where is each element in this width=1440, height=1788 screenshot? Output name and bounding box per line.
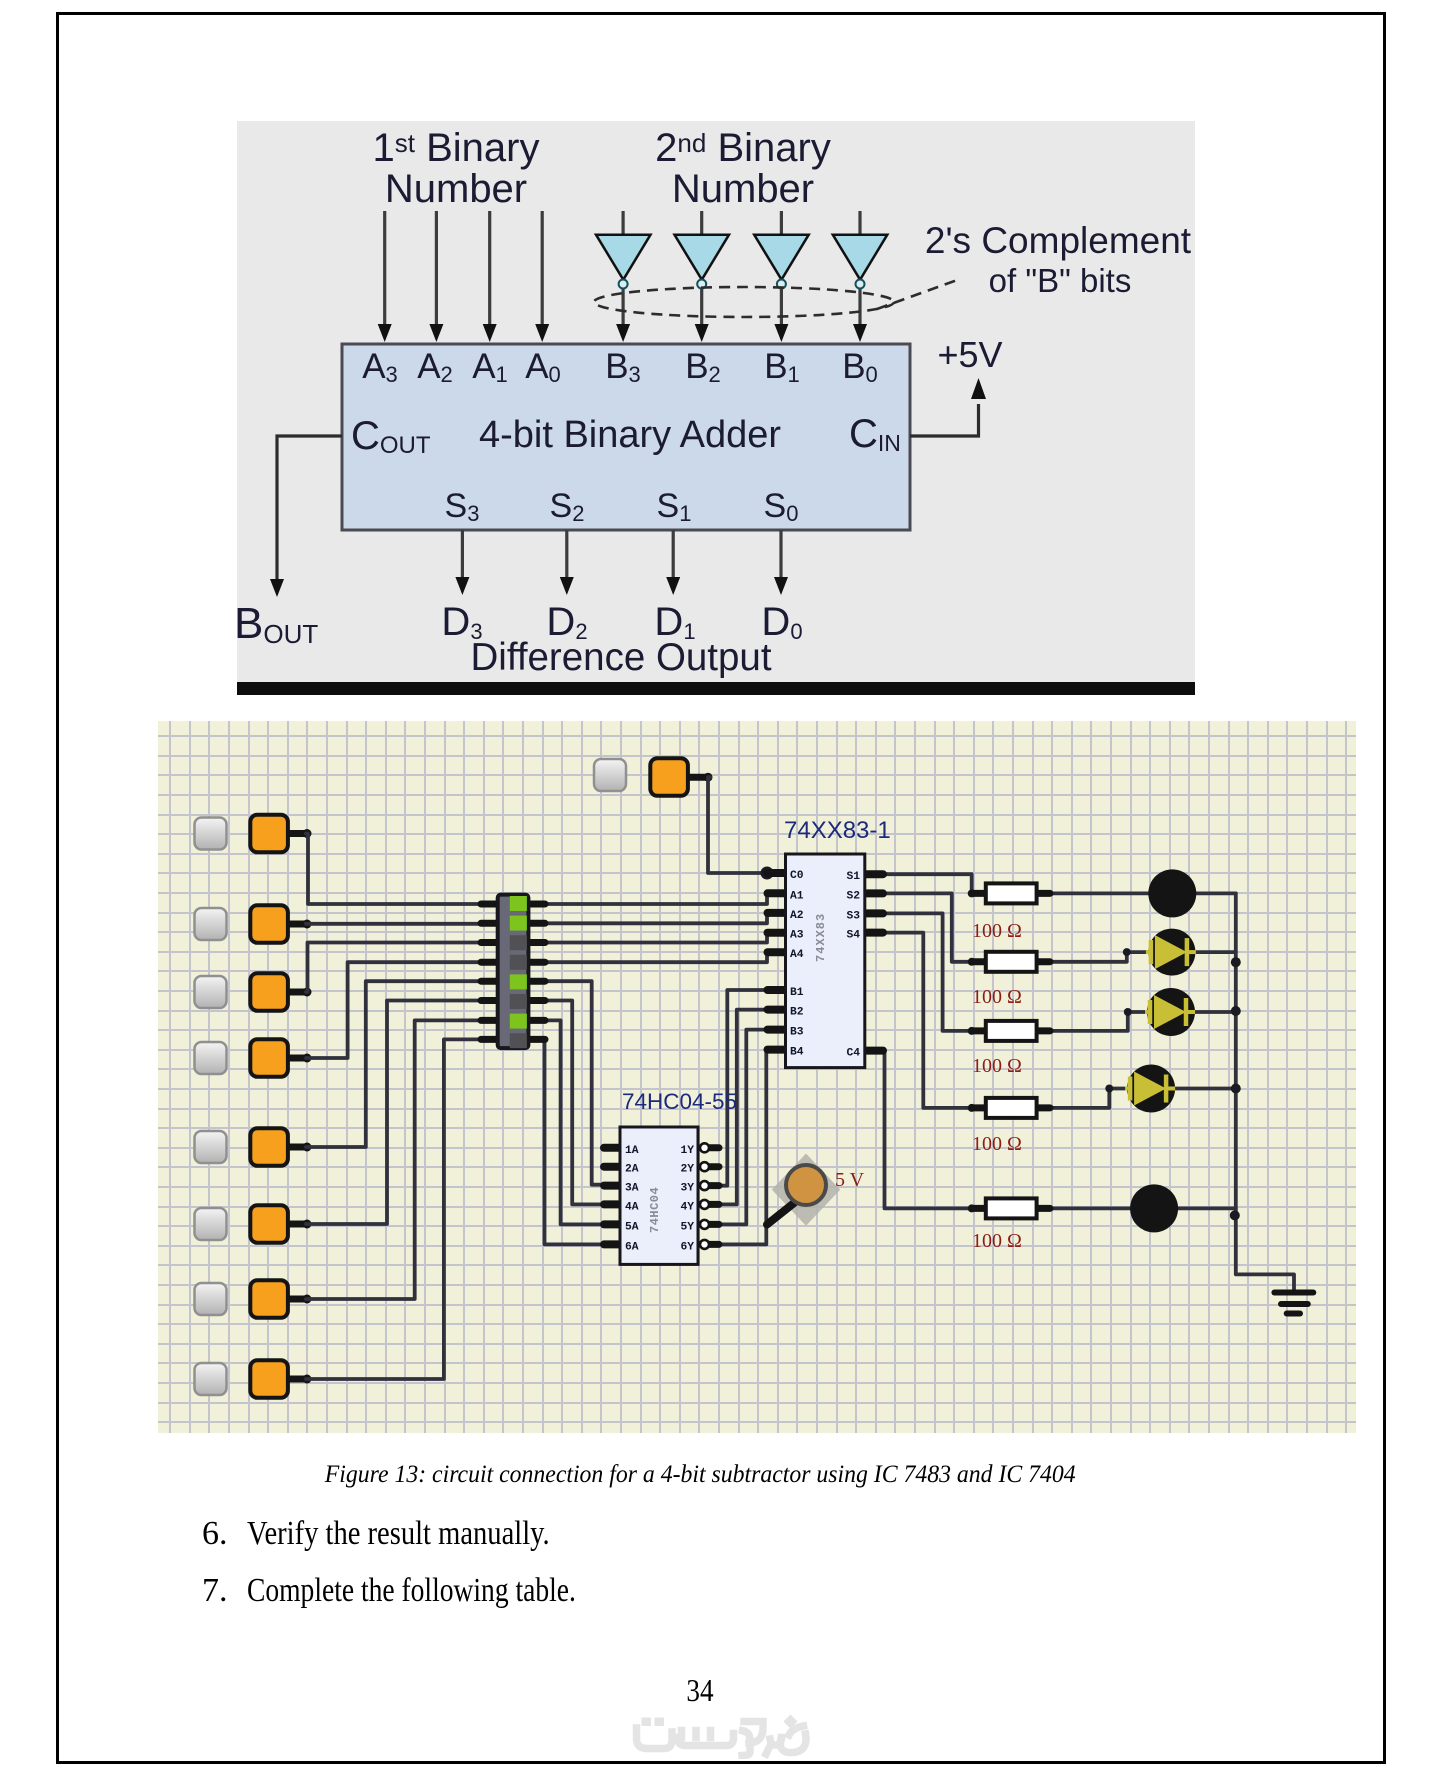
svg-text:2's Complement: 2's Complement xyxy=(925,220,1192,261)
corner blobs at wire bends near components xyxy=(968,889,1132,1212)
pin A1 xyxy=(768,889,786,897)
inverter column for B bits xyxy=(623,211,860,328)
node bus-LED4 xyxy=(1231,1084,1241,1094)
wire bar pin 6 to 4A xyxy=(543,1001,606,1205)
pin A4 xyxy=(768,948,786,956)
svg-text:100 Ω: 100 Ω xyxy=(972,920,1022,942)
wire 3Y to B1 xyxy=(718,990,766,1186)
dashed leader to label xyxy=(877,279,960,309)
input arrows A3..A0 xyxy=(385,211,543,328)
svg-text:5Y: 5Y xyxy=(680,1221,694,1233)
bar body xyxy=(498,895,529,1049)
pin A2 xyxy=(768,909,786,917)
wire 5Y to B3 xyxy=(718,1030,766,1225)
resistor R2 xyxy=(986,952,1037,972)
bar pin L8 xyxy=(481,1036,497,1043)
svg-text:100 Ω: 100 Ω xyxy=(972,986,1022,1008)
pin 4Y xyxy=(709,1201,719,1208)
svg-text:6Y: 6Y xyxy=(680,1241,694,1253)
wire top switch S9 to C0 xyxy=(708,777,766,873)
pin B1 xyxy=(768,986,786,994)
bubble 3Y xyxy=(700,1181,709,1190)
segment 1 (lit) xyxy=(510,896,527,911)
wire switch S6 to bar pin 6 xyxy=(306,1001,481,1225)
bar pin L4 xyxy=(481,959,497,966)
wire arrow D1 xyxy=(672,530,675,582)
bubble 2Y xyxy=(700,1162,709,1171)
svg-text:2Y: 2Y xyxy=(680,1164,694,1176)
svg-text:5 V: 5 V xyxy=(835,1169,865,1191)
switch S5 grey button xyxy=(195,1131,227,1163)
resistor R5 xyxy=(986,1198,1037,1218)
figure bottom black bar xyxy=(237,682,1195,695)
schematic background xyxy=(158,721,1356,1433)
bar pin L7 xyxy=(481,1017,497,1024)
item 6 xyxy=(202,1515,228,1553)
wire switch S4 to bar pin 4 xyxy=(306,962,481,1058)
svg-text:4Y: 4Y xyxy=(680,1201,694,1213)
segment 5 (lit) xyxy=(510,974,527,989)
svg-text:5A: 5A xyxy=(625,1221,639,1233)
svg-text:B4: B4 xyxy=(790,1047,804,1059)
wire arrow A1 xyxy=(488,211,491,328)
svg-text:of "B" bits: of "B" bits xyxy=(989,262,1132,299)
segment 7 (lit) xyxy=(510,1014,527,1029)
LED4 (lit) xyxy=(1125,1065,1175,1113)
svg-text:74HC04: 74HC04 xyxy=(648,1187,662,1233)
wire arrow A0 xyxy=(541,211,544,328)
wire R5 to LED5 xyxy=(1051,1207,1236,1211)
pin 3Y xyxy=(709,1182,719,1189)
segment 8 (off) xyxy=(510,1033,527,1048)
bar pin R7 xyxy=(529,1017,545,1024)
pin A3 xyxy=(768,929,786,937)
adder block U1 xyxy=(342,344,910,530)
svg-text:74XX83-1: 74XX83-1 xyxy=(784,817,891,844)
wire R3 to LED3 xyxy=(1051,1012,1236,1031)
power source V1 5V xyxy=(767,1154,865,1226)
svg-text:100 Ω: 100 Ω xyxy=(972,1055,1022,1077)
wire R2 to LED2 xyxy=(1051,952,1236,962)
switch S3 grey button xyxy=(195,976,227,1008)
svg-text:1A: 1A xyxy=(625,1145,639,1157)
bar pin R6 xyxy=(529,997,545,1004)
figure grey background xyxy=(237,121,1195,682)
bar pin L5 xyxy=(481,978,497,985)
dashed ellipse around inverted B bits xyxy=(594,287,894,317)
svg-text:100 Ω: 100 Ω xyxy=(972,1133,1022,1155)
bubble 1Y xyxy=(700,1143,709,1152)
pin 1A xyxy=(604,1144,620,1152)
wire arrow A2 xyxy=(435,211,438,328)
bar pin R1 xyxy=(529,901,545,908)
wire bar pin 5 to 3A xyxy=(543,981,606,1184)
svg-text:A1: A1 xyxy=(790,890,804,902)
pin B4 xyxy=(768,1046,786,1054)
junction dots xyxy=(761,867,1241,1221)
bar pin L6 xyxy=(481,997,497,1004)
wire bar pin 7 to 5A xyxy=(543,1020,606,1224)
switch S8 orange button xyxy=(250,1360,288,1398)
pin 2Y xyxy=(709,1163,719,1170)
svg-text:A3: A3 xyxy=(790,930,804,942)
svg-text:4A: 4A xyxy=(625,1201,639,1213)
ground symbol xyxy=(1274,1293,1313,1314)
segment 4 (off) xyxy=(510,955,527,970)
wire S4 to R4 xyxy=(884,933,972,1108)
svg-text:100 Ω: 100 Ω xyxy=(972,1230,1022,1252)
node bus-LED5 xyxy=(1230,1210,1240,1220)
bar pin R2 xyxy=(529,920,545,927)
wire arrow D2 xyxy=(565,530,568,582)
pin C4 xyxy=(865,1047,883,1055)
bar pin R3 xyxy=(529,939,545,946)
wire bar pin 8 to 6A xyxy=(543,1039,606,1244)
switch S9 orange button (carry-in) xyxy=(650,758,688,796)
LED3 (lit) xyxy=(1145,988,1195,1036)
pin 6Y xyxy=(709,1241,719,1248)
svg-text:S4: S4 xyxy=(846,930,860,942)
segment 3 (off) xyxy=(510,935,527,950)
inverter U2a xyxy=(596,235,651,289)
switch S4 orange button xyxy=(250,1039,288,1077)
page number 34 xyxy=(650,1672,750,1709)
svg-text:C0: C0 xyxy=(790,870,804,882)
wire arrow D0 xyxy=(779,530,782,582)
wire CIN to +5V xyxy=(910,404,979,436)
node bus-LED2 xyxy=(1231,957,1241,967)
wire bar pin 2 to A2 xyxy=(543,913,770,923)
resistor R1 xyxy=(986,883,1037,903)
svg-text:74HC04-55: 74HC04-55 xyxy=(622,1089,737,1114)
wire switch S1 to bar pin 1 xyxy=(306,834,481,905)
inverter U2c xyxy=(754,235,809,289)
bar pin R4 xyxy=(529,959,545,966)
svg-text:S1: S1 xyxy=(846,871,860,883)
svg-text:+5V: +5V xyxy=(937,334,1002,375)
node C0 junction xyxy=(761,867,774,880)
bubble 6Y xyxy=(700,1240,709,1249)
pin 4A xyxy=(604,1200,620,1208)
wire switch S3 to bar pin 3 xyxy=(306,943,481,993)
svg-text:A4: A4 xyxy=(790,949,804,961)
svg-text:3Y: 3Y xyxy=(680,1183,694,1195)
LED5 (off, black) xyxy=(1130,1184,1178,1232)
switch S1 grey button xyxy=(195,818,227,850)
watermark (Arabic logo, drawn as shapes) xyxy=(630,1713,810,1759)
IC body 74XX83 xyxy=(786,854,865,1068)
svg-text:B2: B2 xyxy=(790,1007,804,1019)
wire switch S8 to bar pin 8 xyxy=(306,1039,481,1379)
wire bar pin 3 to A3 xyxy=(543,933,770,943)
switch S9 grey button (carry-in) xyxy=(594,759,626,791)
bar pin L3 xyxy=(481,939,497,946)
wire 6Y to B4 and 5V xyxy=(718,1050,766,1245)
switch S7 orange button xyxy=(250,1280,288,1318)
svg-text:Difference Output: Difference Output xyxy=(470,636,771,679)
pin 1Y xyxy=(709,1144,719,1151)
bar pin R8 xyxy=(529,1036,545,1043)
item 7 xyxy=(202,1572,228,1610)
bubble 5Y xyxy=(700,1220,709,1229)
switch S3 orange button xyxy=(250,973,288,1011)
svg-text:Number: Number xyxy=(385,167,527,211)
node bus-LED3 xyxy=(1231,1006,1241,1016)
svg-text:S3: S3 xyxy=(846,910,860,922)
IC body 74HC04 xyxy=(620,1127,698,1264)
wire 4Y to B2 xyxy=(718,1010,766,1205)
wire C4 to R5 xyxy=(884,1051,972,1209)
inverter U2b xyxy=(675,235,730,289)
bar pin R5 xyxy=(529,978,545,985)
svg-text:B3: B3 xyxy=(790,1027,804,1039)
wire switch S7 to bar pin 7 xyxy=(306,1020,481,1299)
switch S4 grey button xyxy=(195,1042,227,1074)
svg-text:C4: C4 xyxy=(846,1048,860,1060)
svg-text:1Y: 1Y xyxy=(680,1145,694,1157)
pin 5Y xyxy=(709,1221,719,1228)
pin S1 xyxy=(865,870,883,878)
wire switch S2 to bar pin 2 xyxy=(306,922,481,926)
svg-text:74XX83: 74XX83 xyxy=(814,913,828,962)
pin 3A xyxy=(604,1182,620,1190)
wire switch S5 to bar pin 5 xyxy=(306,981,481,1147)
wire arrow A3 xyxy=(383,211,386,328)
bubble 4Y xyxy=(700,1200,709,1209)
svg-text:B1: B1 xyxy=(790,987,804,999)
svg-text:4-bit Binary Adder: 4-bit Binary Adder xyxy=(479,414,781,456)
wire S3 to R3 xyxy=(884,913,972,1031)
svg-text:Number: Number xyxy=(672,167,814,211)
svg-text:S2: S2 xyxy=(846,890,860,902)
svg-text:A2: A2 xyxy=(790,910,804,922)
pin B3 xyxy=(768,1026,786,1034)
wire S1 to R1 xyxy=(884,874,972,893)
pin S4 xyxy=(865,929,883,937)
pin C0 xyxy=(768,869,786,877)
wire cathode bus to ground xyxy=(1236,893,1294,1290)
pin B2 xyxy=(768,1006,786,1014)
pin 5A xyxy=(604,1220,620,1228)
switch S5 orange button xyxy=(250,1128,288,1166)
segment 2 (lit) xyxy=(510,916,527,931)
figure caption xyxy=(300,1461,1100,1489)
switch S7 grey button xyxy=(195,1283,227,1315)
svg-text:3A: 3A xyxy=(625,1183,639,1195)
switch S1 orange button xyxy=(250,815,288,853)
bar pin L1 xyxy=(481,901,497,908)
LED2 (lit) xyxy=(1146,929,1196,976)
switch S2 grey button xyxy=(195,908,227,940)
wire S2 to R2 xyxy=(884,893,972,961)
output arrows S3..S0 xyxy=(462,530,781,582)
segment 6 (off) xyxy=(510,994,527,1009)
pin S3 xyxy=(865,909,883,917)
switch S2 orange button xyxy=(250,905,288,943)
svg-text:2A: 2A xyxy=(625,1164,639,1176)
resistor R3 xyxy=(986,1021,1037,1041)
wire arrow D3 xyxy=(461,530,464,582)
wire R4 to LED4 xyxy=(1051,1089,1236,1108)
svg-text:6A: 6A xyxy=(625,1241,639,1253)
pin 2A xyxy=(604,1163,620,1171)
LED1 (off, black) xyxy=(1148,869,1196,917)
switch S6 orange button xyxy=(250,1205,288,1243)
pin 6A xyxy=(604,1240,620,1248)
switch S8 grey button xyxy=(195,1363,227,1395)
wire COUT to BOUT xyxy=(277,436,342,583)
pin S2 xyxy=(865,889,883,897)
inverter U2d xyxy=(833,235,888,289)
switch S6 grey button xyxy=(195,1208,227,1240)
wire bar pin 4 to A4 xyxy=(543,952,770,962)
wire R1 to LED1 to bus xyxy=(1051,892,1236,896)
bar pin L2 xyxy=(481,920,497,927)
resistor R4 xyxy=(986,1098,1037,1118)
wire bar pin 1 to A1 xyxy=(543,893,770,904)
